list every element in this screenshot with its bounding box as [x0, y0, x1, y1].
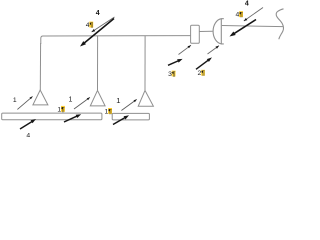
wire: feeder box to separator D	[199, 30, 212, 32]
highlight behind pilcrow of label 4-para (top right)	[239, 11, 243, 17]
flow arrow piercing belt 2	[113, 115, 129, 124]
highlight behind pilcrow of label 3-para	[172, 71, 176, 77]
svg-text:4: 4	[26, 133, 30, 137]
flow arrow 4 crossing duct	[80, 19, 114, 47]
flow arrow at belt 1 left	[20, 119, 36, 129]
wire: drop pipe to hopper F1	[39, 43, 41, 90]
svg-text:4¶: 4¶	[86, 22, 94, 29]
highlight behind pilcrow of label 2-para	[201, 70, 205, 76]
feeder box component (rectangle)	[191, 25, 200, 43]
svg-text:1: 1	[116, 96, 120, 105]
break squiggle (S-curve)	[276, 9, 283, 40]
flow arrow 4 into separator	[230, 20, 257, 37]
hopper F1 (funnel triangle)	[33, 90, 48, 105]
svg-text:2¶: 2¶	[198, 70, 206, 77]
hopper F3 (funnel triangle)	[138, 90, 153, 106]
conveyor belt segment 2	[112, 113, 149, 120]
hopper F2 (funnel triangle)	[90, 90, 105, 106]
svg-text:4¶: 4¶	[236, 12, 244, 19]
pointer arrow to hopper F1	[17, 96, 32, 109]
pointer arrow 3 to feeder box	[179, 45, 192, 54]
wire: separator D to break mark	[222, 26, 283, 27]
svg-text:3¶: 3¶	[168, 71, 176, 78]
highlight behind pilcrow of label 1-para a	[61, 106, 65, 112]
separator D (half-disc, flat side right)	[213, 19, 224, 44]
svg-text:1: 1	[13, 97, 17, 104]
flow arrow at label 2	[196, 57, 212, 69]
pointer arrow to hopper F2	[74, 97, 90, 109]
wire: drop pipe to hopper F2	[97, 36, 99, 91]
svg-text:4: 4	[96, 10, 100, 17]
pointer arrow 4 to duct line	[92, 17, 115, 32]
pointer arrow to hopper F3	[121, 99, 136, 110]
wire: drop pipe to hopper F3	[144, 36, 146, 91]
pointer arrow 4 to break line	[244, 8, 263, 22]
flow arrow at label 3	[168, 59, 183, 65]
highlight behind pilcrow of label 1-para b	[108, 108, 112, 114]
conveyor belt segment 1	[2, 113, 102, 120]
svg-text:1: 1	[69, 96, 73, 103]
svg-text:4: 4	[245, 1, 249, 8]
highlight behind pilcrow of label 4-para (top left)	[89, 22, 93, 28]
wire: main overhead duct line from corner to feeder box	[41, 36, 191, 44]
pointer arrow 2 to separator D	[208, 46, 220, 54]
svg-text:1¶: 1¶	[57, 106, 65, 113]
svg-text:1¶: 1¶	[105, 108, 113, 115]
flow arrow piercing belt 1	[64, 114, 81, 122]
